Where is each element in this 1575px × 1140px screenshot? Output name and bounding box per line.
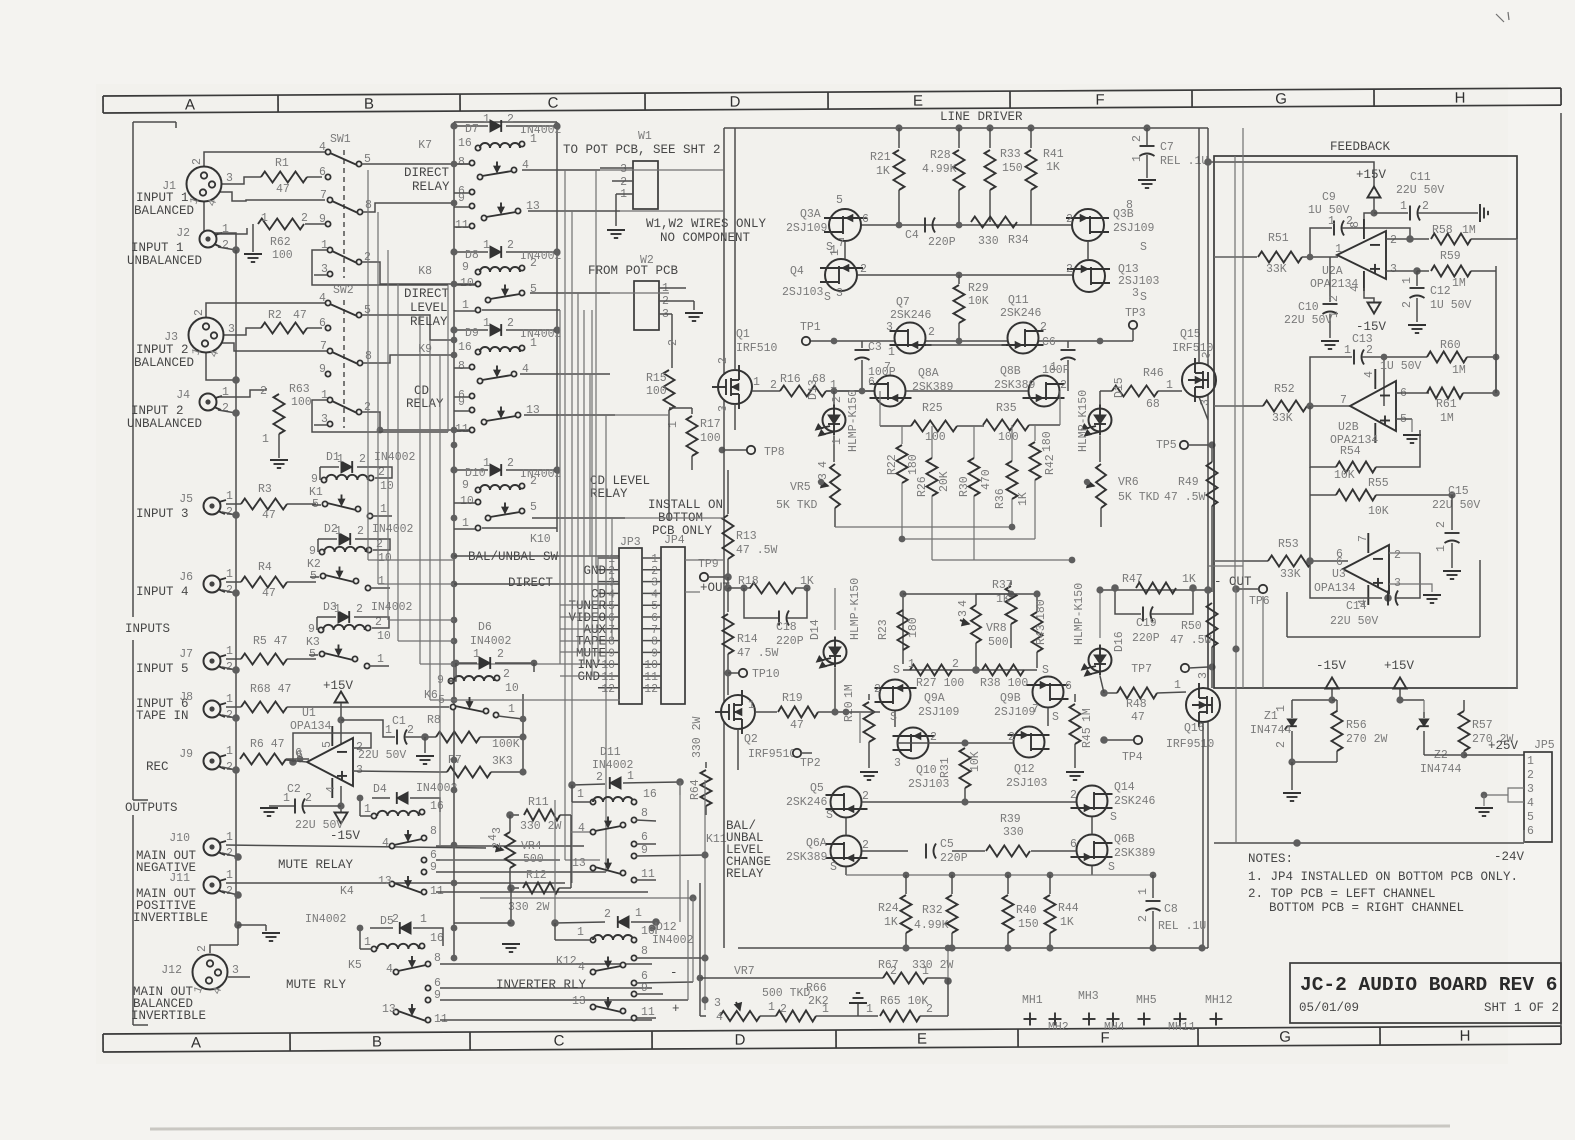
svg-text:33K: 33K bbox=[1272, 412, 1293, 425]
wire bus to gnd bbox=[238, 924, 266, 926]
wire J6 pin2 to bus bbox=[222, 590, 236, 593]
svg-text:J7: J7 bbox=[179, 648, 193, 661]
svg-text:R61: R61 bbox=[1436, 398, 1457, 411]
svg-text:10: 10 bbox=[460, 277, 474, 290]
svg-text:5K TKD: 5K TKD bbox=[1118, 491, 1160, 504]
svg-text:68: 68 bbox=[1146, 398, 1160, 411]
wire Q2 source down bbox=[737, 729, 739, 770]
svg-text:2: 2 bbox=[356, 603, 363, 616]
wire R65 up to R67 bbox=[947, 978, 949, 1016]
svg-text:47: 47 bbox=[293, 309, 307, 322]
resistor R24 vertical bbox=[905, 875, 907, 894]
svg-text:1: 1 bbox=[1527, 755, 1534, 768]
svg-text:R30: R30 bbox=[958, 476, 971, 497]
svg-text:2: 2 bbox=[196, 945, 209, 952]
svg-text:S: S bbox=[1042, 664, 1049, 677]
wire feedback box bbox=[1214, 156, 1517, 688]
capacitor C12 bbox=[1410, 287, 1425, 289]
svg-text:JC-2 AUDIO BOARD REV 6: JC-2 AUDIO BOARD REV 6 bbox=[1300, 974, 1557, 996]
junction U1 neg supply bbox=[337, 802, 344, 809]
svg-text:MH5: MH5 bbox=[1136, 994, 1157, 1007]
svg-text:1: 1 bbox=[1174, 679, 1181, 692]
wire W1 pins bbox=[600, 167, 633, 169]
svg-text:Q9A: Q9A bbox=[924, 692, 945, 705]
svg-text:1: 1 bbox=[748, 699, 755, 712]
svg-text:Q15: Q15 bbox=[1180, 328, 1201, 341]
resistor R64 vertical bbox=[705, 762, 707, 768]
wire rail to relay column bbox=[454, 922, 511, 924]
svg-text:1: 1 bbox=[530, 133, 537, 146]
svg-text:G: G bbox=[1279, 1029, 1291, 1046]
svg-text:J12: J12 bbox=[161, 964, 182, 977]
resistor R13 vertical bbox=[727, 470, 729, 514]
svg-text:C9: C9 bbox=[1322, 191, 1336, 204]
svg-text:10: 10 bbox=[377, 630, 391, 643]
ground U3 plus bbox=[1389, 584, 1432, 592]
wire K5 D5 rails bbox=[359, 928, 361, 949]
svg-text:4: 4 bbox=[716, 1011, 723, 1024]
svg-text:1: 1 bbox=[1401, 277, 1414, 284]
resistor R26 vertical bbox=[931, 426, 933, 458]
connector J4 coax bbox=[200, 394, 217, 411]
wire J4 to R63 bbox=[219, 388, 266, 397]
ground Z1 bbox=[1283, 792, 1301, 794]
svg-text:4: 4 bbox=[487, 834, 500, 841]
svg-text:S: S bbox=[824, 291, 831, 304]
svg-text:7: 7 bbox=[838, 237, 845, 250]
svg-text:6: 6 bbox=[1336, 556, 1343, 569]
wire Q4 rail bbox=[858, 274, 1072, 276]
connector JP5 box bbox=[1524, 752, 1552, 842]
transistor Q5 2SK246 bbox=[831, 787, 862, 818]
op-amp U2B OPA2134 bbox=[1350, 381, 1396, 431]
svg-text:VR4: VR4 bbox=[521, 840, 542, 853]
ground W1 bbox=[607, 229, 625, 231]
svg-text:330: 330 bbox=[978, 235, 999, 248]
svg-text:C6: C6 bbox=[1042, 336, 1056, 349]
svg-text:W1: W1 bbox=[638, 130, 652, 143]
svg-text:3: 3 bbox=[957, 610, 970, 617]
svg-text:R57: R57 bbox=[1472, 719, 1493, 732]
svg-text:12: 12 bbox=[601, 683, 615, 696]
resistor R41 vertical bbox=[1030, 128, 1032, 148]
test point TP10 bbox=[724, 669, 731, 676]
resistor R25 bbox=[880, 425, 911, 427]
svg-text:C12: C12 bbox=[1430, 285, 1451, 298]
svg-text:Q11: Q11 bbox=[1008, 294, 1029, 307]
svg-text:4: 4 bbox=[817, 461, 830, 468]
relay K3 coil bbox=[318, 627, 323, 632]
relay K5 coil bbox=[371, 946, 376, 951]
svg-text:R25: R25 bbox=[922, 402, 943, 415]
transistor Q16 IRF9510 bbox=[1186, 688, 1220, 722]
test point TP5 bbox=[1180, 441, 1188, 449]
svg-text:S: S bbox=[830, 861, 837, 874]
wire K7 contact outs bbox=[522, 169, 600, 171]
svg-text:OUTPUTS: OUTPUTS bbox=[125, 801, 178, 815]
svg-text:LINE DRIVER: LINE DRIVER bbox=[940, 110, 1023, 124]
svg-text:1: 1 bbox=[226, 869, 233, 882]
svg-text:9: 9 bbox=[462, 261, 469, 274]
svg-text:+15V: +15V bbox=[1384, 659, 1415, 673]
svg-text:Q8B: Q8B bbox=[1000, 365, 1021, 378]
resistor R38 bbox=[982, 665, 1024, 676]
svg-text:JP5: JP5 bbox=[1534, 739, 1555, 752]
svg-text:10K: 10K bbox=[1334, 469, 1355, 482]
resistor R18 bbox=[750, 583, 796, 594]
svg-text:3K3: 3K3 bbox=[492, 755, 513, 768]
svg-text:2: 2 bbox=[862, 790, 869, 803]
svg-text:2: 2 bbox=[530, 475, 537, 488]
svg-text:R45: R45 bbox=[1081, 727, 1094, 748]
svg-text:1: 1 bbox=[888, 346, 895, 359]
svg-text:2SJ109: 2SJ109 bbox=[786, 222, 828, 235]
connector JP3/JP4 pin 12 bbox=[598, 687, 619, 689]
resistor R30 vertical bbox=[973, 426, 975, 458]
svg-text:5: 5 bbox=[438, 694, 445, 707]
svg-text:1: 1 bbox=[378, 575, 385, 588]
wire Q3B source to Q13 bbox=[1087, 241, 1089, 260]
svg-text:D4: D4 bbox=[373, 783, 387, 796]
svg-text:R60: R60 bbox=[1440, 339, 1461, 352]
svg-text:1: 1 bbox=[1344, 344, 1351, 357]
wire R2 out bbox=[307, 327, 322, 329]
wire -OUT rail bbox=[1100, 589, 1208, 591]
wire Q8 rail bbox=[826, 390, 874, 392]
svg-text:1: 1 bbox=[1328, 311, 1341, 318]
svg-text:1: 1 bbox=[226, 490, 233, 503]
svg-text:9: 9 bbox=[319, 363, 326, 376]
resistor R67 bbox=[883, 973, 927, 984]
diode D9 IN4002 bbox=[454, 329, 488, 331]
svg-text:MUTE RELAY: MUTE RELAY bbox=[278, 858, 354, 872]
svg-text:INPUTS: INPUTS bbox=[125, 622, 170, 636]
op-amp U2A OPA2134 bbox=[1337, 231, 1386, 279]
wire Q9A to Q10 bbox=[894, 711, 896, 727]
svg-text:2SK246: 2SK246 bbox=[1000, 307, 1042, 320]
wire VR4 left rail bbox=[509, 815, 511, 832]
resistor R2 bbox=[261, 323, 307, 334]
svg-text:2: 2 bbox=[1328, 295, 1341, 302]
svg-text:150: 150 bbox=[1018, 918, 1039, 931]
svg-text:22U 50V: 22U 50V bbox=[1396, 184, 1444, 197]
resistor R28 vertical bbox=[958, 128, 960, 148]
wire K11 right vertical bbox=[704, 780, 706, 1010]
wire K1 right rail bbox=[375, 467, 392, 478]
svg-text:Q4: Q4 bbox=[790, 265, 804, 278]
svg-text:R56: R56 bbox=[1346, 719, 1367, 732]
svg-text:R38 100: R38 100 bbox=[980, 677, 1028, 690]
capacitor C6 vertical bbox=[1067, 341, 1069, 348]
svg-text:6: 6 bbox=[1527, 825, 1534, 838]
svg-text:DIRECT: DIRECT bbox=[404, 166, 450, 180]
mounting hole MH5 bbox=[1138, 1018, 1151, 1020]
relay K1 coil bbox=[321, 477, 326, 482]
mounting hole MH3 bbox=[1083, 1018, 1096, 1020]
svg-text:2: 2 bbox=[596, 771, 603, 784]
wire lower rail bbox=[480, 897, 693, 899]
svg-text:1: 1 bbox=[385, 724, 392, 737]
wire Q5 Q6 columns bbox=[845, 818, 847, 835]
diode D10 IN4002 bbox=[454, 469, 488, 471]
svg-text:1: 1 bbox=[1435, 545, 1448, 552]
svg-text:330 2W: 330 2W bbox=[912, 959, 954, 972]
diode D2 IN4002 bbox=[318, 538, 337, 540]
potentiometer VR4 bbox=[505, 832, 515, 868]
connector JP3/JP4 pin 7 bbox=[598, 628, 619, 630]
wire J3 pin1 down bbox=[206, 344, 236, 380]
transistor Q1 IRF510 bbox=[718, 370, 752, 404]
svg-text:1: 1 bbox=[473, 648, 480, 661]
wire J12 pin3 run bbox=[228, 976, 250, 978]
svg-text:R1: R1 bbox=[275, 157, 289, 170]
svg-text:R42: R42 bbox=[1044, 454, 1057, 475]
svg-text:2: 2 bbox=[717, 357, 730, 364]
svg-text:R54: R54 bbox=[1340, 445, 1361, 458]
svg-text:MH3: MH3 bbox=[1078, 990, 1099, 1003]
svg-text:2SJ103: 2SJ103 bbox=[1006, 777, 1048, 790]
svg-text:10K: 10K bbox=[968, 295, 989, 308]
resistor R40 vertical bbox=[1007, 875, 1009, 894]
resistor R4 bbox=[241, 577, 287, 588]
svg-text:4: 4 bbox=[386, 963, 393, 976]
wire R58 right col bbox=[1516, 239, 1518, 688]
svg-text:1: 1 bbox=[335, 525, 342, 538]
svg-text:6: 6 bbox=[1070, 838, 1077, 851]
svg-text:1: 1 bbox=[483, 457, 490, 470]
svg-text:INVERTER RLY: INVERTER RLY bbox=[496, 978, 587, 992]
wire R62 left down to gnd bbox=[252, 224, 254, 252]
connector JP3/JP4 pin 4 bbox=[598, 592, 619, 594]
wire K2 left rail bbox=[317, 539, 319, 552]
svg-text:S: S bbox=[1108, 861, 1115, 874]
wire U2B pin5 out bbox=[1396, 418, 1412, 420]
svg-text:1. JP4 INSTALLED ON BOTTOM PCB: 1. JP4 INSTALLED ON BOTTOM PCB ONLY. bbox=[1248, 870, 1518, 884]
svg-text:9: 9 bbox=[434, 989, 441, 1002]
junction J4 bus bbox=[232, 409, 240, 417]
svg-text:TAPE IN: TAPE IN bbox=[136, 709, 189, 723]
svg-text:DIRECT: DIRECT bbox=[404, 287, 450, 301]
resistor R35 bbox=[983, 420, 1029, 431]
svg-text:IN4002: IN4002 bbox=[652, 934, 694, 947]
connector J11 coax bbox=[204, 877, 221, 894]
svg-text:H: H bbox=[1460, 1028, 1471, 1045]
svg-text:3: 3 bbox=[886, 321, 893, 334]
svg-text:2: 2 bbox=[930, 731, 937, 744]
wire J11 pin1 run bbox=[226, 882, 565, 884]
svg-text:500: 500 bbox=[523, 853, 544, 866]
svg-text:R49: R49 bbox=[1178, 476, 1199, 489]
svg-text:13: 13 bbox=[572, 857, 586, 870]
wire W2 pins bbox=[659, 287, 686, 289]
relay K10 contacts bbox=[475, 499, 480, 504]
wire SW1 pin8 run bbox=[363, 203, 456, 212]
svg-text:RELAY: RELAY bbox=[412, 180, 450, 194]
ground C12 bbox=[1408, 324, 1426, 326]
svg-text:R32: R32 bbox=[922, 904, 943, 917]
svg-text:2: 2 bbox=[1401, 301, 1414, 308]
svg-text:2: 2 bbox=[1366, 344, 1373, 357]
svg-text:1: 1 bbox=[829, 249, 842, 256]
svg-text:1: 1 bbox=[635, 907, 642, 920]
svg-text:2: 2 bbox=[890, 965, 897, 978]
svg-text:1: 1 bbox=[334, 603, 341, 616]
test point TP3 bbox=[1129, 321, 1137, 329]
wire J3 pin3 to R2 bbox=[224, 328, 261, 335]
svg-text:1: 1 bbox=[462, 517, 469, 530]
svg-text:3: 3 bbox=[321, 263, 328, 276]
zener Z2 IN4744 bbox=[1423, 712, 1425, 718]
svg-text:TO POT PCB, SEE SHT 2: TO POT PCB, SEE SHT 2 bbox=[563, 143, 721, 157]
LED D13 HLMP-K150 bbox=[833, 391, 835, 406]
svg-text:INPUT 2: INPUT 2 bbox=[136, 343, 189, 357]
diode D5 bbox=[370, 927, 393, 929]
connector JP3/JP4 pin 5 bbox=[598, 604, 619, 606]
wire SW1 lower box bbox=[312, 250, 448, 285]
svg-text:4: 4 bbox=[1527, 797, 1534, 810]
svg-text:330: 330 bbox=[1003, 826, 1024, 839]
svg-text:1: 1 bbox=[483, 239, 490, 252]
svg-text:+: + bbox=[672, 1002, 680, 1016]
svg-text:4: 4 bbox=[325, 786, 338, 793]
svg-text:Q1: Q1 bbox=[736, 328, 750, 341]
svg-text:2: 2 bbox=[260, 385, 267, 398]
svg-text:R22: R22 bbox=[886, 454, 899, 475]
relay K8 contacts bbox=[475, 281, 480, 286]
svg-text:1: 1 bbox=[1328, 215, 1335, 228]
svg-text:9: 9 bbox=[430, 861, 437, 874]
svg-text:R21: R21 bbox=[870, 151, 891, 164]
border frame bottom band bbox=[103, 1026, 1561, 1052]
wire C1 junction bbox=[421, 733, 429, 741]
wire Q10 Q12 rail bbox=[846, 711, 880, 713]
svg-text:13: 13 bbox=[572, 995, 586, 1008]
relay K6 coil bbox=[448, 678, 453, 683]
svg-text:47 .5W: 47 .5W bbox=[737, 647, 779, 660]
svg-text:2: 2 bbox=[1435, 521, 1448, 528]
wire R67 node up to bus bbox=[947, 948, 949, 978]
svg-text:R13: R13 bbox=[736, 530, 757, 543]
wire U3 pin2 out bbox=[1389, 552, 1420, 554]
wire U3 input node bbox=[1306, 557, 1314, 565]
ground R45 bbox=[1066, 771, 1084, 773]
svg-text:9: 9 bbox=[641, 844, 648, 857]
svg-text:100: 100 bbox=[700, 432, 721, 445]
wire Q9B to Q12 bbox=[1047, 708, 1049, 726]
svg-text:J6: J6 bbox=[179, 571, 193, 584]
junction R19 D14 bbox=[831, 708, 838, 715]
connector W1 box bbox=[633, 161, 658, 209]
wire K1 left rail bbox=[319, 467, 321, 480]
svg-text:1: 1 bbox=[1131, 155, 1144, 162]
connector J2 coax bbox=[200, 231, 217, 248]
svg-text:1K: 1K bbox=[876, 165, 890, 178]
resistor R12 bbox=[511, 887, 519, 889]
svg-text:2: 2 bbox=[1390, 234, 1397, 247]
svg-text:1M: 1M bbox=[1452, 277, 1466, 290]
svg-text:7: 7 bbox=[1032, 703, 1039, 716]
svg-text:1: 1 bbox=[226, 745, 233, 758]
resistor R22 vertical bbox=[901, 426, 903, 444]
svg-text:1: 1 bbox=[577, 788, 584, 801]
svg-text:1: 1 bbox=[831, 438, 844, 445]
ground at bus bottom bbox=[262, 932, 280, 934]
svg-text:1: 1 bbox=[483, 113, 490, 126]
wire S rail R27 R38 bbox=[903, 669, 1037, 671]
wire R7 to U1 plus bbox=[353, 771, 439, 772]
svg-text:3: 3 bbox=[1197, 672, 1210, 679]
wire bus main vertical bbox=[235, 250, 237, 925]
junction J2 bus bbox=[232, 246, 240, 254]
resistor R32 vertical bbox=[951, 875, 953, 894]
resistor R51 bbox=[1214, 256, 1257, 258]
svg-text:1: 1 bbox=[1400, 200, 1407, 213]
wire K9 contact outs bbox=[520, 373, 610, 375]
wire SW2 lower pin2 run bbox=[362, 412, 475, 430]
svg-text:2SK389: 2SK389 bbox=[1114, 847, 1156, 860]
svg-text:33K: 33K bbox=[1280, 568, 1301, 581]
svg-text:+15V: +15V bbox=[1356, 168, 1387, 182]
svg-text:R5 47: R5 47 bbox=[253, 635, 288, 648]
ground C11 sideways bbox=[1479, 204, 1481, 222]
LED D16 HLMP-K150 bbox=[1099, 590, 1101, 638]
svg-text:INPUT 4: INPUT 4 bbox=[136, 585, 189, 599]
svg-text:3: 3 bbox=[1527, 783, 1534, 796]
svg-text:R63: R63 bbox=[289, 383, 310, 396]
svg-text:Q6B: Q6B bbox=[1114, 833, 1135, 846]
potentiometer VR5 bbox=[830, 464, 840, 508]
svg-text:C14: C14 bbox=[1346, 600, 1367, 613]
svg-text:7: 7 bbox=[1357, 535, 1370, 542]
svg-text:C11: C11 bbox=[1410, 171, 1431, 184]
wire Q6 rail bbox=[862, 850, 908, 852]
wire J1 pin3 to R1 bbox=[222, 177, 261, 184]
svg-text:MH11: MH11 bbox=[1168, 1021, 1196, 1034]
resistor R65 bbox=[836, 1015, 878, 1017]
svg-text:IRF9510: IRF9510 bbox=[1166, 738, 1214, 751]
resistor R16 bbox=[752, 390, 780, 392]
svg-text:6: 6 bbox=[1065, 680, 1072, 693]
wire feedback inner bottom bbox=[1287, 636, 1480, 638]
svg-text:2: 2 bbox=[926, 1003, 933, 1016]
svg-text:CD: CD bbox=[414, 384, 429, 398]
wire J8 R68 bbox=[226, 706, 241, 708]
svg-text:D15: D15 bbox=[1113, 377, 1126, 398]
svg-text:C15: C15 bbox=[1448, 485, 1469, 498]
svg-text:2SK246: 2SK246 bbox=[1114, 795, 1156, 808]
svg-text:IN4744: IN4744 bbox=[1420, 763, 1462, 776]
svg-text:6: 6 bbox=[319, 317, 326, 330]
wire W2 pin3 down to R15 bbox=[671, 314, 673, 368]
svg-text:F: F bbox=[1095, 92, 1104, 109]
svg-text:1: 1 bbox=[922, 965, 929, 978]
svg-text:K8: K8 bbox=[418, 265, 432, 278]
connector W2 box bbox=[634, 281, 659, 330]
svg-text:2: 2 bbox=[1394, 549, 1401, 562]
resistor R60 bbox=[1384, 356, 1427, 358]
resistor R54 bbox=[1310, 406, 1336, 467]
svg-text:RELAY: RELAY bbox=[726, 867, 764, 881]
svg-text:R4: R4 bbox=[258, 561, 272, 574]
svg-text:2: 2 bbox=[1422, 200, 1429, 213]
op-amp U1 OPA134 bbox=[307, 738, 353, 786]
svg-text:9: 9 bbox=[641, 982, 648, 995]
svg-text:9: 9 bbox=[311, 473, 318, 486]
wire U2A pin2 out bbox=[1386, 238, 1429, 240]
wire K2 right rail bbox=[373, 539, 390, 550]
connector J3 XLR bbox=[189, 318, 224, 353]
transistor Q9B 2SJ109 bbox=[1033, 677, 1064, 708]
